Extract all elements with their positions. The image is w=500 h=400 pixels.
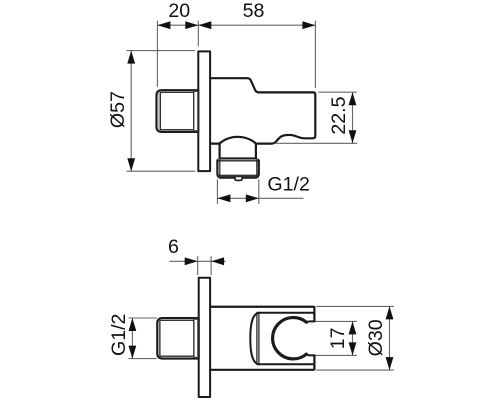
dimension line D57	[130, 51, 132, 172]
arrow G1/2 up	[129, 318, 137, 331]
holder body (plan view) bottom part	[210, 355, 314, 369]
outlet nipple	[235, 177, 242, 180]
holder fork bottom edge	[257, 363, 314, 365]
threaded inlet block	[156, 90, 198, 132]
arrow 58 left	[198, 21, 211, 29]
threaded inlet block (plan)	[157, 318, 199, 359]
arrow 17 up	[349, 321, 357, 334]
svg-text:17: 17	[327, 328, 349, 350]
extension line 17 bottom	[316, 354, 357, 356]
arrow 22.5 down	[349, 130, 357, 143]
extension line D57 top	[127, 50, 194, 52]
holder body (plan view) top part	[210, 307, 314, 322]
extension line D30 top	[317, 305, 394, 307]
dimension line G1/2	[217, 197, 303, 199]
extension line nut right	[258, 180, 260, 204]
nut top band line	[218, 160, 257, 162]
cup rim line 2	[258, 314, 260, 364]
extension line 6 right	[210, 257, 212, 275]
arrow 6 pointing left	[211, 257, 224, 265]
svg-text:58: 58	[243, 0, 265, 22]
arrow G1/2 down	[129, 346, 137, 359]
dimension line 17	[352, 321, 354, 355]
wall flange plate (side view)	[198, 51, 210, 171]
extension line G1/2 bottom	[129, 358, 156, 360]
extension line left of 20	[156, 21, 158, 87]
svg-text:G1/2: G1/2	[267, 173, 309, 195]
svg-text:Ø30: Ø30	[365, 319, 387, 356]
holder body outline (side view)	[210, 78, 315, 143]
thread collar band (plan)	[194, 319, 198, 357]
arrow 17 down	[349, 342, 357, 355]
extension line G1/2 top	[129, 317, 156, 319]
outlet dome	[220, 137, 256, 159]
holder fork top edge	[257, 312, 314, 314]
C ring top hook	[306, 320, 314, 323]
extension line 22.5 top	[319, 91, 356, 93]
nut chamfer left	[219, 160, 221, 177]
arrow 58 right	[302, 21, 315, 29]
wall flange plate (plan view)	[199, 278, 210, 397]
arrow 22.5 up	[349, 92, 357, 105]
coupling nut	[217, 159, 258, 178]
extension line 6 left	[197, 257, 199, 275]
svg-text:Ø57: Ø57	[107, 91, 129, 128]
arrow G1/2 right	[246, 194, 259, 202]
svg-text:6: 6	[168, 236, 179, 258]
extension line D57 bottom	[127, 170, 195, 172]
thread inner face (plan)	[160, 320, 194, 356]
C ring bottom hook	[306, 354, 314, 355]
arrow 6 pointing right	[185, 257, 198, 265]
extension line D30 bottom	[317, 369, 394, 371]
dimension line G1/2 vertical	[131, 318, 133, 359]
svg-text:G1/2: G1/2	[108, 314, 130, 356]
arrow D30 up	[386, 306, 394, 319]
svg-text:22.5: 22.5	[328, 96, 350, 134]
thread inner face	[160, 92, 193, 129]
dimension line 6	[170, 260, 225, 262]
nut bottom band	[218, 175, 258, 178]
nut chamfer right	[256, 160, 258, 177]
holder C ring	[273, 318, 307, 359]
extension line nut left	[216, 180, 218, 204]
arrow D57 up	[127, 51, 135, 64]
extension line 20/58 shared	[197, 21, 199, 46]
arrow G1/2 left	[217, 194, 230, 202]
dimension line 22.5	[352, 92, 354, 143]
cup back bulge	[250, 313, 258, 365]
extension line 17 top	[316, 320, 357, 322]
arrow D30 down	[386, 357, 394, 370]
dimension line 20/58	[157, 24, 315, 26]
arrow 20 left	[157, 21, 170, 29]
nut top band	[218, 159, 257, 160]
arrow 20 right	[185, 21, 198, 29]
arrow D57 down	[127, 158, 135, 171]
extension line right of 58	[314, 21, 316, 88]
extension line 22.5 bottom	[276, 142, 357, 144]
svg-text:20: 20	[168, 0, 190, 22]
cup rim line 1	[256, 314, 258, 364]
thread collar band	[194, 91, 198, 131]
dimension line D30	[389, 306, 391, 370]
